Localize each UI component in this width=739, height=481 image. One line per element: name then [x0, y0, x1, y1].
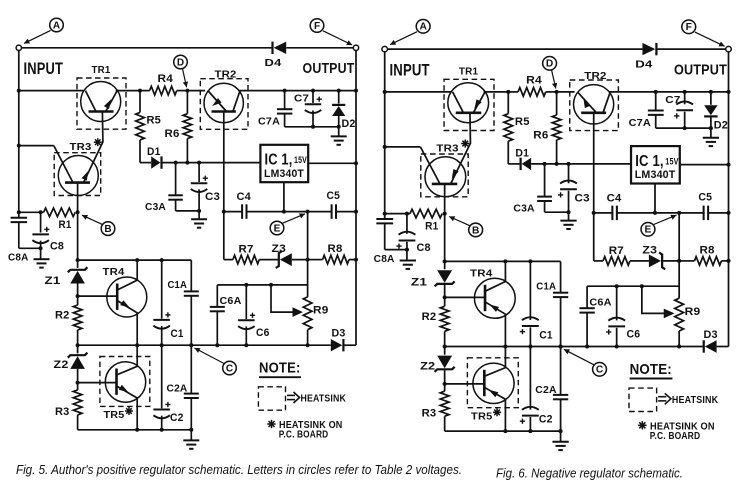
svg-text:R8: R8 [699, 244, 714, 256]
wire mid bus to D3 [308, 344, 331, 346]
zener Z1 [444, 261, 446, 269]
svg-text:C1: C1 [171, 328, 184, 340]
wire IC1 ground pin [654, 184, 656, 213]
transistor TR3 heatsink outline [421, 154, 468, 197]
wire E vertical [678, 213, 680, 298]
svg-text:R5: R5 [515, 116, 530, 128]
svg-text:C6: C6 [627, 328, 641, 340]
svg-text:R6: R6 [533, 129, 548, 141]
svg-text:D2: D2 [342, 118, 356, 130]
svg-text:IC 1,: IC 1, [635, 152, 664, 170]
resistor R6 [186, 91, 188, 114]
wire C7 group bottom [285, 126, 339, 128]
svg-text:C3: C3 [205, 191, 220, 203]
svg-text:R7: R7 [239, 244, 254, 256]
wire bus to R7 [223, 212, 225, 260]
wire R4 to D junction [546, 91, 557, 93]
potentiometer R9 [675, 298, 684, 331]
ground (D2) [703, 137, 719, 139]
resistor R4 [150, 86, 177, 95]
wire mid bus to D3 [679, 346, 703, 348]
capacitor C2A (on right rail) [184, 393, 199, 395]
diode D1 [160, 156, 162, 168]
diode D2 [338, 91, 340, 104]
node R6 bottom junction [185, 161, 189, 165]
node C7A junction [654, 90, 658, 94]
resistor R2 [77, 296, 79, 305]
diode D2 [710, 92, 712, 105]
svg-text:TR2: TR2 [584, 70, 606, 82]
transistor TR4 [107, 277, 147, 317]
capacitor C3 [568, 164, 570, 183]
node D2 top [709, 90, 713, 94]
diode D4 [655, 43, 657, 55]
wire to R4 [140, 90, 150, 92]
wire IC1 output pin [680, 164, 729, 166]
svg-text:D: D [177, 57, 184, 68]
wire bottom bus [445, 430, 561, 432]
svg-text:R3: R3 [55, 406, 70, 418]
label HEATSINK ON [638, 424, 647, 426]
svg-text:C1A: C1A [536, 280, 556, 292]
wire TR2 emitter [593, 113, 595, 213]
svg-text:D3: D3 [704, 329, 718, 341]
wire Z1 row to TR4 collector [445, 260, 506, 262]
node R5 junction [506, 90, 510, 94]
resistor R1 [410, 209, 442, 218]
resistor R1 [44, 208, 76, 217]
wire TR5 base [78, 382, 117, 384]
capacitor C8A [376, 218, 393, 220]
transistor TR1 heatsink outline [77, 78, 126, 129]
node A (input terminal) [16, 45, 21, 50]
label circle B [469, 223, 483, 237]
svg-text:R1: R1 [425, 220, 438, 232]
capacitor C7 [312, 91, 314, 103]
label circle C [223, 361, 237, 375]
wire TR4 base [78, 295, 118, 297]
wire TR1 emitter to TR3 [451, 113, 471, 184]
svg-text:Fig. 5. Author's positive regu: Fig. 5. Author's positive regulator sche… [16, 462, 462, 477]
node C3 junction [566, 162, 570, 166]
wire C7 group bottom [656, 127, 711, 129]
node C7 top [311, 89, 315, 93]
svg-text:C3: C3 [575, 192, 590, 204]
svg-text:OUTPUT: OUTPUT [674, 62, 727, 78]
wire R5 to D1 [508, 163, 519, 165]
wire top rail (input to D4) [22, 47, 272, 49]
wire bottom bus [78, 429, 192, 431]
node C3A junction [543, 162, 547, 166]
svg-text:IC 1,: IC 1, [265, 152, 293, 169]
svg-text:P.C. BOARD: P.C. BOARD [650, 430, 701, 442]
svg-text:P.C. BOARD: P.C. BOARD [279, 429, 329, 441]
wire TR5 base [445, 383, 485, 385]
svg-text:LM340T: LM340T [264, 168, 304, 180]
svg-text:TR4: TR4 [470, 267, 492, 279]
ground (bottom rail) [183, 439, 199, 441]
wire output rail [355, 51, 357, 346]
svg-text:C1A: C1A [168, 279, 188, 291]
wire R9 wiper [642, 286, 665, 313]
capacitor C2 [529, 347, 531, 410]
wire Z1 row to TR4 collector [78, 259, 138, 261]
node C3A junction [174, 161, 178, 165]
capacitor C6 [615, 284, 619, 288]
svg-text:15V: 15V [294, 155, 307, 166]
wire left input rail [384, 52, 386, 219]
node TR5 emitter junction [503, 429, 507, 433]
capacitor C3 [198, 163, 200, 182]
wire junction to R8 [679, 260, 694, 262]
svg-text:C3A: C3A [513, 202, 535, 214]
svg-text:R2: R2 [55, 310, 70, 322]
svg-text:C4: C4 [237, 191, 252, 203]
node F (output terminal) [353, 45, 358, 50]
wire rail to R1 [385, 213, 410, 215]
node TR4 emitter junction [503, 345, 507, 349]
wire R5 to D1 [140, 162, 151, 164]
heatsink legend arrow [658, 396, 666, 398]
wire TR1 collector to R4 [116, 90, 140, 92]
wire TR2 to output group [609, 91, 728, 93]
node D junction [185, 89, 189, 93]
node IC1 pin junction [282, 210, 286, 214]
zener Z2 [77, 345, 79, 353]
svg-text:TR5: TR5 [104, 409, 125, 421]
capacitor C8A [11, 217, 28, 219]
svg-text:C5: C5 [327, 190, 341, 202]
wire mid bus [78, 344, 308, 346]
svg-text:R5: R5 [147, 115, 162, 127]
wire TR3 base to Z1 [444, 214, 446, 262]
capacitor C2 [161, 345, 163, 408]
resistor R6 [556, 92, 558, 115]
node C3 junction [197, 161, 201, 165]
capacitor C6A [586, 286, 588, 308]
diode D4 [271, 42, 273, 54]
capacitor C7 [684, 92, 686, 104]
svg-text:Z1: Z1 [45, 275, 61, 287]
svg-text:HEATSINK: HEATSINK [672, 394, 719, 406]
zener Z1 [77, 260, 79, 268]
svg-text:Z3: Z3 [272, 243, 287, 255]
wire TR3 base to Z1 [77, 212, 79, 260]
label circle A [416, 20, 430, 34]
transistor TR2 [204, 83, 243, 122]
node C arrow junction [189, 343, 193, 347]
svg-text:C2A: C2A [167, 383, 188, 395]
heatsink legend dashed box [258, 387, 285, 410]
node E junction [306, 210, 310, 214]
svg-text:F: F [314, 21, 320, 32]
node D2 top [337, 89, 341, 93]
svg-text:Fig. 6. Negative regulator sch: Fig. 6. Negative regulator schematic. [496, 466, 683, 481]
svg-text:R3: R3 [422, 407, 437, 419]
svg-text:Z1: Z1 [411, 276, 427, 288]
svg-text:R4: R4 [526, 74, 542, 86]
node TR3 wire junction [383, 145, 387, 149]
resistor R5 [507, 92, 509, 114]
wire R9 wiper [271, 285, 294, 312]
ground (D2) [331, 135, 347, 137]
svg-text:LM340T: LM340T [635, 169, 676, 181]
svg-text:C5: C5 [698, 191, 712, 203]
svg-text:C7: C7 [665, 94, 680, 106]
transistor TR2 heatsink outline [570, 80, 619, 131]
svg-text:E: E [645, 225, 652, 236]
wire input rail to TR1 [385, 91, 451, 93]
wire C4-C5 bus [594, 212, 613, 214]
svg-text:C1: C1 [539, 329, 552, 341]
svg-text:C: C [226, 363, 233, 374]
svg-text:NOTE:: NOTE: [259, 360, 301, 377]
ground (C8) [400, 260, 416, 262]
ground (C8) [34, 258, 50, 260]
svg-text:R9: R9 [685, 306, 701, 318]
node TR4 emitter junction [135, 343, 139, 347]
diode D1 [520, 158, 522, 170]
resistor R7 [594, 260, 603, 262]
label circle E [270, 221, 284, 235]
wire TR1 collector to R4 [483, 91, 508, 93]
svg-text:INPUT: INPUT [24, 60, 64, 78]
wire R8 to rail [721, 260, 728, 262]
resistor R8 [694, 257, 721, 266]
wire R4 to D junction [177, 90, 188, 92]
capacitor C1 [161, 260, 163, 319]
node A (input terminal) [382, 46, 388, 51]
transistor TR2 heatsink outline [200, 79, 248, 130]
label circle F [310, 19, 324, 33]
node F (output terminal) [726, 46, 732, 51]
capacitor C1 [529, 261, 531, 320]
capacitor C3A [544, 164, 546, 197]
wire TR1 emitter to TR3 [84, 112, 103, 183]
svg-text:C7: C7 [294, 93, 309, 105]
wire to R4 [508, 91, 518, 93]
capacitor C3A [175, 163, 177, 196]
svg-text:OUTPUT: OUTPUT [303, 61, 355, 77]
svg-text:C6A: C6A [220, 295, 242, 307]
wire top rail (D4 to output) [286, 47, 356, 49]
svg-text:TR1: TR1 [92, 64, 111, 76]
zener Z3 [276, 251, 282, 268]
svg-text:C6A: C6A [589, 296, 612, 308]
node C7 top [683, 90, 687, 94]
zener Z2 [444, 347, 446, 355]
label circle F [682, 20, 696, 34]
transistor TR2 [574, 85, 614, 124]
label HEATSINK ON [267, 423, 275, 425]
svg-text:TR2: TR2 [215, 69, 237, 81]
wire D3 to rail [344, 344, 356, 346]
label circle D [174, 55, 188, 69]
capacitor C8 [406, 214, 408, 234]
resistor R3 [77, 383, 79, 390]
svg-text:TR4: TR4 [103, 266, 125, 278]
svg-text:C8: C8 [417, 242, 431, 254]
wire bus to R7 [593, 213, 595, 261]
node R5 junction [138, 89, 142, 93]
node E junction [677, 211, 681, 215]
wire TR4 top to C1A [505, 260, 560, 262]
wire C4-C5 bus [224, 211, 242, 213]
wire TR3 base [77, 183, 79, 213]
capacitor C4 [611, 206, 613, 221]
op-amp IC1 (regulator LM340T) [631, 146, 680, 183]
capacitor C1A (on right rail) [560, 261, 562, 292]
wire rail to R1 [19, 211, 44, 213]
svg-text:D3: D3 [332, 328, 346, 340]
wire C6 group top [217, 284, 307, 286]
transistor TR1 [448, 83, 489, 123]
svg-text:D4: D4 [635, 58, 652, 70]
wire Z3 to junction [663, 260, 679, 262]
svg-text:D: D [546, 59, 553, 70]
wire D1 to IC1 [162, 162, 260, 164]
wire input rail to TR1 [19, 90, 84, 92]
label circle E [641, 223, 655, 237]
wire TR2 emitter [223, 112, 225, 212]
potentiometer R9 [303, 297, 312, 330]
op-amp IC1 (regulator LM340T) [260, 145, 308, 182]
wire C6 group top [587, 285, 679, 287]
transistor TR5 heatsink outline [467, 358, 518, 408]
svg-text:C: C [596, 365, 603, 376]
svg-text:D1: D1 [515, 147, 529, 159]
svg-text:Z3: Z3 [642, 244, 657, 256]
wire TR4 top to C1A [137, 259, 191, 261]
node B junction [76, 210, 80, 214]
node B junction [443, 212, 447, 216]
ground (bottom rail) [552, 441, 568, 443]
svg-text:D2: D2 [714, 119, 728, 131]
label circle A [50, 18, 64, 32]
wire output rail [728, 52, 730, 347]
transistor TR4 [474, 278, 515, 318]
svg-text:R9: R9 [313, 305, 329, 317]
capacitor C2A (on right rail) [553, 394, 568, 396]
svg-text:B: B [472, 225, 479, 236]
svg-text:TR5: TR5 [471, 410, 492, 422]
wire IC1 ground pin [283, 182, 285, 211]
svg-text:B: B [104, 224, 111, 235]
wire top rail (D4 to output) [657, 48, 728, 50]
node TR5 emitter junction [135, 428, 139, 432]
wire E vertical [307, 212, 309, 297]
transistor TR1 heatsink outline [444, 79, 494, 130]
wire TR2 to output group [239, 90, 356, 92]
wire D1 to IC1 [531, 163, 631, 165]
transistor TR3 [58, 156, 98, 196]
capacitor C7A [655, 92, 657, 110]
capacitor C7A [284, 91, 286, 109]
wire TR4 base [445, 296, 485, 298]
transistor TR3 [425, 157, 466, 197]
node R6 bottom junction [555, 162, 559, 166]
resistor R7 [224, 259, 233, 261]
svg-text:Z2: Z2 [420, 360, 435, 372]
capacitor C6A [216, 285, 218, 307]
svg-text:TR1: TR1 [459, 65, 478, 77]
label circle C [593, 363, 607, 377]
wire junction to R8 [308, 259, 323, 261]
svg-text:NOTE:: NOTE: [630, 361, 672, 378]
svg-text:Z2: Z2 [54, 359, 69, 371]
transistor TR5 [473, 363, 514, 403]
svg-text:R2: R2 [422, 311, 437, 323]
capacitor C8 [40, 212, 42, 232]
svg-text:C7A: C7A [258, 116, 280, 128]
resistor R8 [323, 255, 349, 264]
wire IC1 output pin [308, 162, 356, 164]
wire rail to TR3 [19, 145, 54, 147]
wire D3 to rail [717, 346, 729, 348]
svg-text:C8A: C8A [374, 253, 395, 265]
wire R8 to rail [349, 259, 356, 261]
svg-text:TR3: TR3 [436, 142, 458, 154]
wire TR3 base [444, 184, 446, 214]
zener Z3 [659, 253, 665, 270]
svg-text:R4: R4 [158, 73, 174, 85]
wire left input rail [18, 51, 20, 218]
svg-text:C2: C2 [170, 412, 184, 424]
node TR3 wire junction [17, 144, 21, 148]
ground (C3) [560, 220, 576, 222]
capacitor C1A (on right rail) [190, 260, 192, 291]
svg-text:C2: C2 [539, 413, 553, 425]
wire mid bus [445, 346, 680, 348]
capacitor C5 [703, 206, 705, 221]
svg-text:C6: C6 [256, 327, 270, 339]
svg-text:D1: D1 [147, 146, 161, 158]
svg-text:C4: C4 [607, 192, 622, 204]
resistor R4 [518, 88, 546, 97]
transistor TR5 heatsink outline [100, 357, 150, 407]
resistor R5 [139, 91, 141, 113]
svg-text:15V: 15V [665, 156, 679, 167]
node C arrow junction [559, 345, 563, 349]
svg-text:C8: C8 [50, 241, 64, 253]
svg-text:C3A: C3A [145, 201, 166, 213]
capacitor C5 [331, 204, 333, 219]
wire Z3 to junction [292, 259, 308, 261]
diode D3 [342, 339, 344, 351]
transistor TR3 heatsink outline [54, 153, 100, 196]
svg-text:R7: R7 [609, 245, 624, 257]
diode D3 [703, 340, 705, 352]
label circle B [101, 222, 115, 236]
node D junction [555, 90, 559, 94]
svg-text:C8A: C8A [8, 252, 29, 264]
label circle D [543, 57, 557, 71]
capacitor C6 [244, 283, 248, 287]
svg-text:F: F [686, 22, 692, 33]
resistor R2 [444, 297, 446, 306]
svg-text:HEATSINK: HEATSINK [301, 393, 347, 405]
node IC1 pin junction [653, 211, 657, 215]
svg-text:R8: R8 [328, 243, 343, 255]
wire top rail (input to D4) [387, 48, 642, 50]
capacitor C4 [241, 204, 243, 219]
ground (C3) [191, 218, 207, 220]
svg-text:INPUT: INPUT [389, 61, 429, 80]
transistor TR1 [81, 82, 121, 122]
svg-text:D4: D4 [265, 57, 282, 69]
svg-text:R6: R6 [165, 128, 180, 140]
svg-text:A: A [419, 22, 427, 33]
